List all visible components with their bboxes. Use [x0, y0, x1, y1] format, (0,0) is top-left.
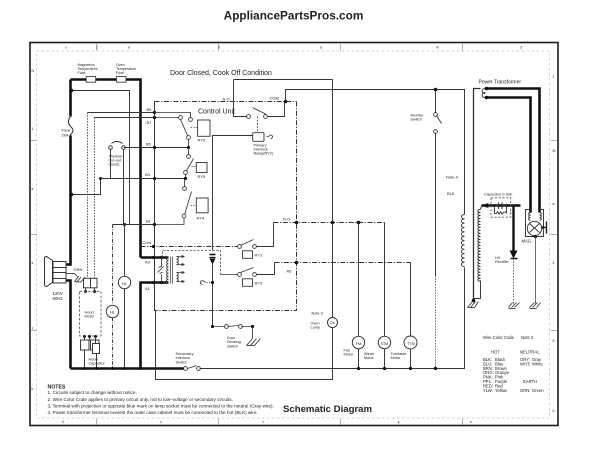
capacitor dashed box [491, 198, 511, 217]
node monitor tap [434, 88, 438, 92]
wire top rail from COM to HV primary [286, 90, 465, 215]
svg-text:OL: OL [330, 320, 336, 325]
ground symbol 2 [509, 303, 520, 309]
stirrer motor STM [384, 223, 386, 369]
svg-text:Switch: Switch [176, 360, 187, 364]
node on B1 extension [123, 223, 126, 226]
wire plug neutral lead down [67, 281, 71, 369]
thermal cut-out (hood) contacts [109, 142, 126, 225]
wire thin top rail to oven lamp column [234, 79, 333, 81]
svg-text:RY4: RY4 [197, 216, 205, 221]
svg-text:Lamp: Lamp [311, 326, 321, 330]
svg-text:RY6: RY6 [198, 138, 206, 143]
svg-text:B5: B5 [146, 141, 152, 146]
wire hood capacitor to rail [85, 351, 97, 369]
wire A5 rail [275, 262, 411, 264]
node on hot column y=90.6 [70, 89, 74, 93]
svg-text:4: 4 [553, 261, 555, 265]
fan motor FM [358, 223, 360, 369]
svg-text:Motor: Motor [344, 353, 354, 357]
svg-text:COM.: COM. [270, 95, 280, 100]
capacitor bar [210, 254, 216, 256]
svg-text:B9: B9 [147, 107, 153, 112]
primary interlock relay RY2 coil [253, 133, 264, 142]
svg-text:Power Transformer: Power Transformer [479, 80, 522, 86]
svg-text:a: a [32, 187, 34, 191]
svg-text:b: b [32, 387, 34, 391]
turntable motor TTM [410, 263, 412, 369]
node B5-RY6 pivot junction [187, 146, 190, 149]
node B1 junction [153, 223, 156, 226]
wire color code table [483, 335, 544, 393]
relay coil RY4 [196, 198, 208, 213]
svg-text:Fuse: Fuse [78, 71, 86, 75]
primary interlock relay switch contacts [247, 115, 251, 119]
svg-text:Relay(RY2): Relay(RY2) [254, 152, 274, 156]
thick filament lead 1 [487, 89, 540, 213]
svg-text:Capacitor 0.9uF: Capacitor 0.9uF [484, 192, 513, 197]
node B3-RY5 junction [184, 177, 187, 180]
svg-text:3: 3 [520, 46, 522, 50]
diode (cathode bar + triangle) [210, 257, 216, 259]
wire hood motor lead 1 from B9 [87, 113, 89, 279]
RY2 coil squiggle [267, 135, 273, 139]
svg-text:3. Terminal with projection or: 3. Terminal with projection or opposite … [48, 403, 274, 408]
svg-text:Motor: Motor [364, 356, 374, 360]
magnetron tube circle [527, 221, 541, 235]
svg-text:WHT:: WHT: [520, 361, 530, 366]
svg-text:M: M [553, 149, 556, 153]
relay RY4 contacts [155, 179, 192, 225]
svg-text:HL: HL [122, 281, 128, 286]
border tick marks [31, 43, 559, 425]
svg-text:B7: B7 [147, 120, 153, 125]
svg-text:A1: A1 [145, 286, 151, 291]
wire diode column lower [212, 265, 214, 327]
svg-text:Fuse: Fuse [116, 71, 124, 75]
relay coil RY6 [198, 120, 210, 136]
control unit dashed box [155, 102, 297, 311]
svg-text:5: 5 [553, 339, 555, 343]
wire RY2 to diode column [213, 136, 253, 251]
thin bottom rail right portion [200, 268, 465, 369]
svg-text:AppliancePartsPros.com: AppliancePartsPros.com [224, 9, 364, 23]
wire B3 [101, 178, 186, 180]
node B3 extension [99, 177, 102, 180]
ground door sensing [247, 327, 261, 346]
wire magnetron to ground [535, 237, 537, 303]
hood motor terminals bottom [83, 335, 86, 338]
magnetron temperature fuse body [86, 77, 96, 83]
svg-text:2. Wire Color Code applies to: 2. Wire Color Code applies to primary ci… [48, 397, 233, 402]
node on hot column y=194 [70, 193, 74, 197]
svg-text:Switch: Switch [227, 344, 238, 348]
wire HL1 column [124, 225, 126, 369]
AC plug 120V 60Hz [45, 257, 67, 287]
svg-text:Switch: Switch [411, 118, 422, 122]
border zone tick labels right [553, 75, 556, 413]
hood motor connector block [84, 278, 98, 288]
node A3 junctions [152, 256, 155, 259]
arrowhead on capacitor line [481, 203, 489, 208]
thick bottom rail left portion [71, 367, 184, 370]
hood lamp HL2 [106, 305, 118, 317]
svg-text:Note 3: Note 3 [312, 312, 323, 316]
node A5 junction [295, 261, 299, 265]
wire A3 dashed feed to RY3 [163, 251, 221, 275]
node B7 junction [153, 116, 156, 119]
wire rectifier to ground [513, 259, 515, 303]
oven temperature fuse body [117, 77, 127, 83]
svg-text:NEUTRAL: NEUTRAL [520, 350, 540, 355]
svg-text:GRN: GRN [74, 267, 83, 272]
relay RY6 contacts [155, 113, 193, 148]
svg-text:Schematic Diagram: Schematic Diagram [283, 404, 372, 415]
svg-text:N.O.: N.O. [223, 96, 231, 101]
thick filament lead 2 [487, 98, 531, 213]
HV transformer primary winding [461, 215, 464, 267]
ground symbol 1 [468, 301, 479, 308]
relay coil RY1 [243, 251, 253, 258]
svg-text:Motor: Motor [85, 315, 95, 319]
fuse 20A (wavy) on hot column [67, 117, 76, 136]
svg-text:N.O.: N.O. [283, 216, 291, 221]
svg-text:2: 2 [62, 420, 64, 424]
svg-text:RY3: RY3 [255, 281, 263, 286]
svg-text:x: x [65, 46, 67, 50]
border zone tick labels left [32, 69, 35, 391]
svg-text:BLK: BLK [447, 191, 455, 196]
hood lamp HL1 [118, 276, 130, 288]
svg-text:EARTH: EARTH [523, 379, 537, 384]
relay RY1 contacts [238, 240, 257, 249]
monitor switch [435, 90, 437, 113]
NOTES block [48, 384, 274, 415]
svg-text:B3: B3 [145, 172, 151, 177]
svg-text:1: 1 [553, 75, 555, 79]
magnetron antenna lead [542, 222, 547, 234]
sheet outer border frame [30, 43, 558, 426]
wire tap to HL1 branch [72, 91, 130, 225]
svg-text:B1: B1 [146, 218, 152, 223]
svg-text:s: s [32, 261, 34, 265]
svg-text:RY5: RY5 [198, 174, 206, 179]
oven lamp OL [328, 318, 338, 328]
door sensing switch [211, 325, 214, 328]
svg-text:MAG.: MAG. [522, 238, 533, 243]
svg-text:(Hood): (Hood) [109, 162, 120, 166]
hood motor terminals top [84, 290, 87, 293]
bus left solid line [154, 102, 156, 311]
relay coil RY5 [196, 163, 207, 173]
wire primary stub to case line [474, 89, 481, 301]
HV rectifier thick drop [512, 206, 514, 252]
svg-text:1: 1 [32, 127, 34, 131]
border zone tick labels top [65, 46, 522, 50]
LV transformer secondary winding lower [177, 273, 179, 282]
svg-text:1: 1 [262, 420, 264, 424]
border zone tick labels bottom [62, 420, 472, 424]
switch lever to COM node [253, 108, 267, 115]
coil tap squiggle left of node [206, 282, 211, 284]
wire A1 thick elbow [141, 283, 169, 369]
ground symbol 3 [530, 303, 541, 309]
sheet inner border line [37, 51, 550, 418]
svg-text:A3: A3 [145, 260, 151, 265]
magnetron anode node [534, 235, 537, 238]
svg-text:b: b [553, 409, 555, 413]
node COM [284, 100, 288, 104]
wire RY3 out to A5 rail [257, 263, 275, 275]
surge absorber across primary [161, 258, 163, 283]
svg-text:1. Circuits subject to change: 1. Circuits subject to change without no… [48, 390, 137, 395]
secondary taps with arrows [177, 255, 185, 282]
capacitor element [493, 204, 496, 207]
wire Com dash-dot rail [141, 246, 238, 248]
relay coil RY3 [243, 279, 253, 287]
wire N.O. rail [274, 222, 385, 224]
svg-text:60Hz: 60Hz [53, 296, 63, 301]
wire capacitor thick line [482, 204, 521, 206]
svg-text:Capacitor: Capacitor [89, 362, 106, 366]
LV transformer secondary winding upper [177, 257, 179, 265]
wire RY1 out to N.O. rail [257, 223, 274, 247]
wire filament winding bottom to ground node [474, 281, 481, 299]
LV transformer core [170, 257, 172, 284]
wire winding top to cap line [481, 206, 485, 210]
svg-text:Yellow: Yellow [495, 388, 508, 393]
svg-text:N: N [32, 69, 35, 73]
svg-text:RY1: RY1 [255, 253, 263, 258]
svg-text:HL: HL [110, 309, 116, 314]
svg-text:Control Unit: Control Unit [198, 109, 235, 116]
ground case node [472, 299, 476, 303]
wire HL2 dash column [112, 225, 114, 369]
svg-text:White: White [532, 361, 543, 366]
relay RY3 contacts [221, 268, 257, 277]
wire hood motor lead 2 from B7 [94, 118, 96, 279]
power transformer primary stub coils [482, 88, 486, 97]
svg-text:Motor: Motor [391, 356, 401, 360]
svg-text:m: m [436, 46, 439, 50]
node B3 junction [153, 177, 156, 180]
node Com junction [152, 245, 155, 248]
wire B5 [124, 147, 189, 149]
svg-text:e: e [128, 46, 130, 50]
svg-text:20A: 20A [62, 132, 69, 137]
svg-text:YLW:: YLW: [483, 388, 493, 393]
junction dots on bottom rail [83, 367, 86, 370]
hood motor dashed box [80, 291, 102, 336]
wire oven lamp column [156, 80, 333, 380]
node B9 junction [153, 111, 156, 114]
magnetron filament terminal coils [529, 213, 531, 221]
svg-text:Wire Color Code: Wire Color Code [483, 335, 515, 340]
svg-text:▸: ▸ [398, 420, 400, 424]
node B5 junction [153, 146, 156, 149]
thick top loop line [71, 80, 141, 258]
svg-text:Rectifier: Rectifier [495, 260, 510, 264]
HV secondary (filament) winding [478, 210, 481, 282]
node diode column [211, 281, 214, 284]
wire B9 [88, 112, 155, 114]
svg-text:FM: FM [356, 341, 362, 346]
svg-text:STM: STM [381, 342, 389, 346]
node A1 junctions [152, 281, 155, 284]
hood capacitor bodies [81, 340, 100, 354]
magnetron outer box [526, 210, 544, 237]
ground plug GRN [67, 274, 86, 283]
wire plug hot lead up [67, 80, 71, 265]
wire B1 [113, 224, 155, 226]
mech link lever to RY2 [257, 117, 259, 133]
wire B3 jog to hot column [72, 179, 101, 195]
svg-text:Door Closed, Cook Off Conditio: Door Closed, Cook Off Condition [170, 70, 272, 77]
svg-text:TTM: TTM [407, 342, 414, 346]
relay RY5 contacts [184, 150, 194, 179]
svg-text:d: d [320, 46, 322, 50]
svg-text:Green: Green [532, 388, 544, 393]
wire B7 [95, 117, 155, 119]
svg-text:HOT: HOT [491, 350, 500, 355]
wire A3 thick elbow [141, 256, 169, 259]
svg-text:s: s [470, 420, 472, 424]
svg-text:GRN:: GRN: [520, 388, 530, 393]
node N.O. rail junctions [295, 221, 299, 225]
HV rectifier diode [510, 251, 518, 259]
LV transformer primary winding [167, 258, 169, 283]
svg-text:A5: A5 [287, 268, 293, 273]
wire riser from top loop to NO/COM switch [234, 80, 247, 117]
svg-text:a: a [553, 202, 555, 206]
svg-text:c: c [160, 420, 162, 424]
svg-text:4. Power transformer terminal: 4. Power transformer terminal nearest th… [48, 410, 258, 415]
svg-text:Note 2: Note 2 [521, 335, 534, 340]
svg-text:Note 4: Note 4 [446, 175, 459, 180]
svg-text:Com: Com [143, 240, 152, 245]
